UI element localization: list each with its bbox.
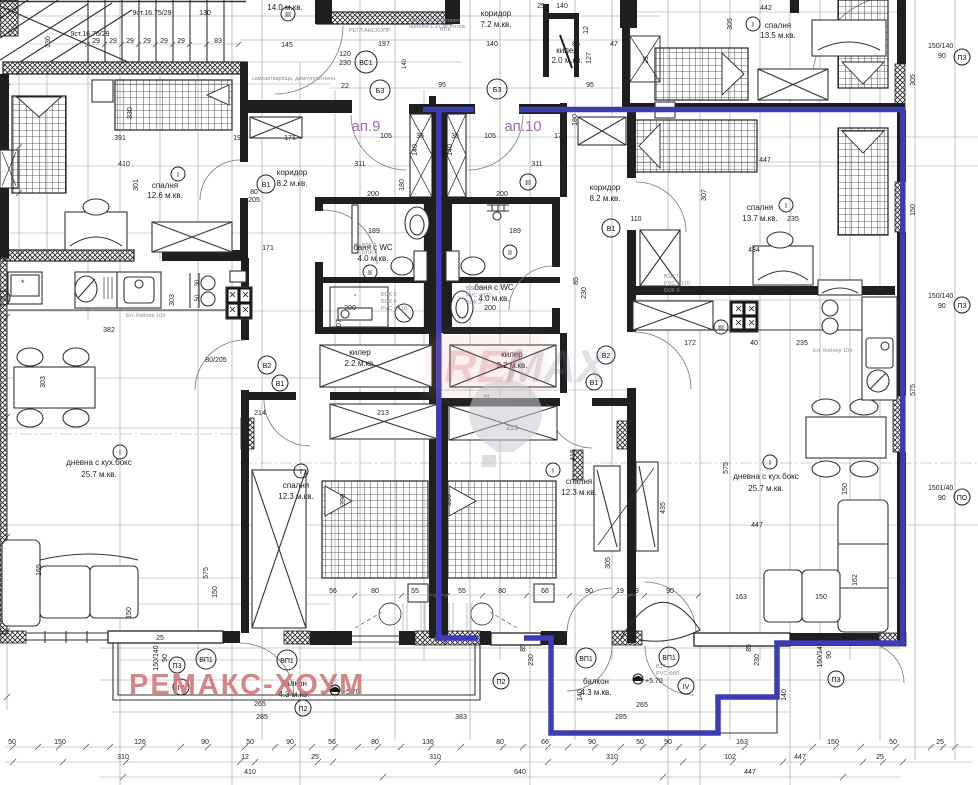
svg-text:8.2 м.кв.: 8.2 м.кв. [276,179,307,188]
svg-text:I: I [177,172,179,179]
svg-text:265: 265 [636,702,648,709]
svg-text:66: 66 [541,588,549,595]
svg-text:145: 145 [281,42,293,49]
svg-text:56: 56 [329,588,337,595]
svg-text:95: 95 [438,82,446,89]
svg-text:дневна с кух.бокс: дневна с кух.бокс [66,458,132,467]
svg-text:163: 163 [736,739,748,746]
svg-text:311: 311 [531,161,542,168]
svg-text:435: 435 [660,502,667,514]
svg-text:60: 60 [2,96,9,104]
svg-text:дневна с кух.бокс: дневна с кух.бокс [733,472,799,481]
svg-text:30: 30 [195,279,201,286]
svg-text:III: III [525,180,531,187]
svg-text:66: 66 [541,739,549,746]
svg-text:60/60/Н-1.3Т от готлок: 60/60/Н-1.3Т от готлок [409,24,466,30]
svg-text:150/140: 150/140 [153,645,160,670]
svg-text:90: 90 [938,53,946,60]
svg-text:120: 120 [339,51,351,58]
svg-text:150: 150 [54,739,66,746]
svg-text:189: 189 [509,228,521,235]
svg-text:коридор: коридор [481,9,512,18]
svg-text:спалня: спалня [152,181,178,190]
svg-text:150: 150 [827,739,839,746]
svg-text:130: 130 [2,124,9,136]
svg-text:163: 163 [735,594,747,601]
svg-text:19: 19 [631,588,639,595]
svg-text:442: 442 [760,5,772,12]
svg-text:205: 205 [248,197,260,204]
svg-text:12.6 м.кв.: 12.6 м.кв. [147,191,183,200]
svg-text:В1: В1 [607,226,616,233]
svg-text:В14: В14 [656,664,666,670]
svg-text:*: * [21,278,25,288]
svg-text:85: 85 [573,277,580,285]
svg-text:140: 140 [781,689,788,701]
svg-text:214: 214 [254,410,266,417]
svg-text:305: 305 [910,74,917,86]
svg-text:килер: килер [349,348,371,357]
svg-text:PVC Ф110: PVC Ф110 [664,281,690,287]
svg-text:13.5 м.кв.: 13.5 м.кв. [760,31,796,40]
svg-text:19: 19 [233,135,241,142]
svg-text:311: 311 [354,161,365,168]
svg-text:55: 55 [458,588,466,595]
svg-text:П3: П3 [958,55,967,62]
svg-text:47: 47 [610,41,618,48]
svg-text:140: 140 [577,689,584,701]
svg-text:230: 230 [339,60,351,67]
svg-text:90: 90 [666,588,674,595]
svg-text:РЕГЛ.АНСХОПР: РЕГЛ.АНСХОПР [349,28,391,34]
svg-text:310: 310 [429,754,441,761]
svg-text:25.7 м.кв.: 25.7 м.кв. [748,484,784,493]
svg-text:I: I [119,450,121,457]
svg-text:434: 434 [748,247,760,254]
svg-text:спалня: спалня [283,481,309,490]
svg-text:213: 213 [377,410,389,417]
svg-text:50: 50 [8,739,16,746]
svg-text:ПО: ПО [957,495,968,502]
svg-text:200: 200 [484,305,496,312]
svg-text:90: 90 [588,739,596,746]
svg-text:180: 180 [572,114,579,126]
svg-text:Ел. бойлер 10л: Ел. бойлер 10л [126,312,165,319]
svg-text:235: 235 [796,340,808,347]
svg-text:447: 447 [744,769,756,776]
svg-text:12: 12 [241,754,249,761]
svg-text:230: 230 [581,287,588,299]
svg-text:коридор: коридор [590,183,621,192]
svg-text:II: II [368,270,372,277]
svg-text:391: 391 [114,135,126,142]
svg-text:спалня: спалня [765,21,791,30]
svg-text:90: 90 [162,654,169,662]
svg-text:85: 85 [572,41,580,48]
svg-text:БОК 5: БОК 5 [381,292,397,298]
svg-text:197: 197 [378,41,390,48]
svg-text:ап.9: ап.9 [352,118,381,135]
svg-text:ВЗК 7: ВЗК 7 [664,274,679,280]
svg-text:балкон: балкон [583,677,609,686]
svg-text:410: 410 [118,161,130,168]
svg-text:140: 140 [412,144,419,156]
svg-text:80/205: 80/205 [205,357,227,364]
svg-text:85: 85 [520,644,527,652]
svg-text:56: 56 [328,739,336,746]
svg-text:спалня: спалня [566,477,592,486]
svg-text:БПК 4: БПК 4 [362,250,377,256]
svg-text:150: 150 [815,594,827,601]
svg-text:25: 25 [156,635,164,642]
svg-text:305: 305 [605,557,612,569]
svg-text:I: I [769,460,771,467]
svg-text:189: 189 [368,228,380,235]
svg-text:130: 130 [199,10,211,17]
svg-text:171: 171 [262,245,274,252]
svg-text:200: 200 [344,305,356,312]
svg-text:110: 110 [630,216,641,223]
svg-text:102: 102 [724,754,736,761]
svg-text:35: 35 [416,133,424,140]
svg-text:80: 80 [250,189,258,196]
svg-text:БОК 6: БОК 6 [664,288,680,294]
svg-text:305: 305 [727,18,734,30]
svg-text:ВП1: ВП1 [199,657,213,664]
svg-text:В2: В2 [263,363,272,370]
svg-text:140: 140 [447,144,454,156]
svg-text:301: 301 [133,179,140,191]
svg-text:200: 200 [367,191,379,198]
svg-text:90: 90 [938,495,946,502]
svg-text:330: 330 [127,107,134,119]
svg-text:П2: П2 [497,679,506,686]
svg-text:ВЗК 2: ВЗК 2 [362,243,377,249]
svg-text:640: 640 [514,769,526,776]
svg-text:22: 22 [341,83,349,90]
svg-text:коридор: коридор [277,168,308,177]
svg-text:50: 50 [195,294,201,301]
svg-text:162: 162 [852,574,859,586]
svg-text:303: 303 [169,294,176,306]
svg-text:50: 50 [636,739,644,746]
svg-text:150: 150 [126,607,133,619]
svg-text:171: 171 [554,133,566,140]
svg-text:150/140: 150/140 [928,293,953,300]
svg-text:90: 90 [286,739,294,746]
svg-text:ВС1: ВС1 [359,60,372,67]
svg-text:7.2 м.кв.: 7.2 м.кв. [480,20,511,29]
svg-text:12.3 м.кв.: 12.3 м.кв. [561,488,597,497]
svg-text:2.2 м.кв.: 2.2 м.кв. [344,359,375,368]
svg-text:415: 415 [570,449,577,461]
svg-text:II: II [508,250,512,257]
svg-text:310: 310 [606,754,618,761]
svg-text:50: 50 [889,739,897,746]
svg-text:50: 50 [246,739,254,746]
svg-text:PVC Ф110: PVC Ф110 [466,293,492,299]
svg-text:П3: П3 [958,303,967,310]
svg-text:130: 130 [45,36,52,48]
svg-text:105: 105 [484,133,496,140]
svg-text:171: 171 [284,135,296,142]
svg-text:80: 80 [496,739,504,746]
svg-text:303: 303 [40,376,47,388]
svg-text:150: 150 [212,586,219,598]
svg-text:200: 200 [496,191,508,198]
svg-text:285: 285 [256,714,268,721]
svg-text:447: 447 [759,157,771,164]
svg-text:13.7 м.кв.: 13.7 м.кв. [742,214,778,223]
svg-text:172: 172 [684,340,696,347]
svg-text:19: 19 [616,588,624,595]
svg-text:90: 90 [585,588,593,595]
svg-text:PVC Ф80: PVC Ф80 [656,671,679,677]
svg-text:РЕМАКС-ХОУМ: РЕМАКС-ХОУМ [129,669,365,701]
svg-text:III: III [718,325,724,332]
svg-text:40: 40 [750,340,758,347]
svg-text:396: 396 [446,494,453,506]
svg-text:25.7 м.кв.: 25.7 м.кв. [81,470,117,479]
svg-text:9ст.16.75/29: 9ст.16.75/29 [132,10,171,17]
svg-text:396: 396 [340,494,347,506]
svg-text:140: 140 [402,58,408,69]
svg-text:127: 127 [586,52,593,64]
svg-text:В1: В1 [262,182,271,189]
svg-text:310: 310 [117,754,129,761]
svg-text:447: 447 [794,754,806,761]
svg-text:180: 180 [399,179,406,191]
svg-text:575: 575 [723,462,730,474]
svg-text:35: 35 [451,133,459,140]
svg-text:8.2 м.кв.: 8.2 м.кв. [589,194,620,203]
svg-text:55: 55 [411,588,419,595]
svg-text:230: 230 [528,654,535,666]
svg-text:I: I [752,22,754,29]
svg-text:I: I [552,468,554,475]
svg-text:80: 80 [498,588,506,595]
svg-text:БОК 3: БОК 3 [466,300,482,306]
svg-text:ВЗК 4: ВЗК 4 [466,286,481,292]
svg-text:ВП1: ВП1 [280,658,294,665]
svg-text:235: 235 [787,216,799,223]
svg-text:307: 307 [336,319,343,331]
svg-text:150/140: 150/140 [817,642,824,667]
svg-text:265: 265 [254,701,266,708]
svg-text:90: 90 [201,739,209,746]
svg-text:Ел. бойлер 10л: Ел. бойлер 10л [813,347,852,354]
svg-text:25: 25 [876,754,884,761]
svg-text:П3: П3 [832,677,841,684]
svg-text:1501/40: 1501/40 [928,485,953,492]
svg-text:III: III [0,296,6,303]
svg-text:9ст.16.76/29: 9ст.16.76/29 [70,31,109,38]
svg-text:575: 575 [203,567,210,579]
svg-text:PVC Ф110: PVC Ф110 [381,306,407,312]
svg-text:ВП1: ВП1 [579,656,593,663]
svg-text:III: III [285,12,291,19]
svg-text:575: 575 [910,384,917,396]
svg-text:самозатваряща, димоуплътнена: самозатваряща, димоуплътнена [252,76,336,82]
svg-text:25: 25 [936,739,944,746]
svg-text:285: 285 [615,714,627,721]
svg-text:90: 90 [938,303,946,310]
svg-text:I: I [300,469,302,476]
svg-text:307: 307 [701,189,708,201]
svg-text:ВП1: ВП1 [662,655,676,662]
svg-text:П2: П2 [299,706,308,713]
svg-text:90: 90 [664,739,672,746]
svg-text:+5.70: +5.70 [645,678,663,685]
svg-text:126: 126 [134,739,146,746]
svg-text:150: 150 [842,483,849,495]
svg-text:12.3 м.кв.: 12.3 м.кв. [278,492,314,501]
svg-text:Б3: Б3 [376,88,385,95]
svg-text:IV: IV [683,684,690,691]
svg-text:12: 12 [583,26,590,34]
svg-text:90: 90 [826,651,833,659]
svg-text:2.0 м.кв.: 2.0 м.кв. [551,56,582,65]
svg-text:447: 447 [751,522,763,529]
svg-text:25: 25 [311,754,319,761]
svg-text:В1: В1 [276,381,285,388]
svg-text:25: 25 [537,3,545,10]
svg-text:Б3: Б3 [493,87,502,94]
svg-text:95: 95 [586,82,594,89]
svg-text:165: 165 [36,564,43,576]
svg-text:ап.10: ап.10 [504,118,541,135]
svg-text:80: 80 [371,739,379,746]
svg-text:382: 382 [103,327,115,334]
svg-text:150: 150 [910,204,917,216]
svg-text:БОК 6: БОК 6 [381,299,397,305]
svg-text:105: 105 [380,133,392,140]
svg-text:спалня: спалня [747,203,773,212]
svg-text:80: 80 [371,588,379,595]
svg-text:85: 85 [746,644,753,652]
svg-text:136: 136 [422,739,434,746]
svg-text:150/140: 150/140 [928,43,953,50]
svg-text:410: 410 [244,769,256,776]
svg-text:I: I [785,203,787,210]
svg-text:25: 25 [643,56,650,64]
svg-text:140: 140 [486,41,498,48]
svg-text:140: 140 [556,3,568,10]
svg-text:383: 383 [455,714,467,721]
svg-text:230: 230 [754,654,761,666]
svg-text:4.3 м.кв.: 4.3 м.кв. [580,688,611,697]
